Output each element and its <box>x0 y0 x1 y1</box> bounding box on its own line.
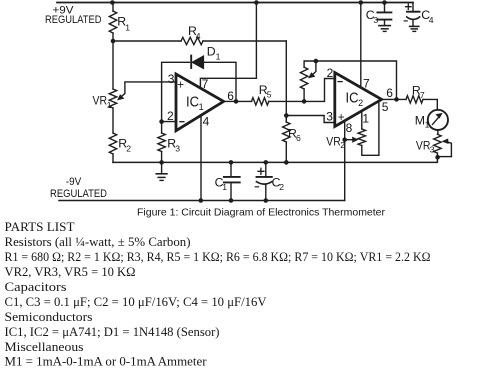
svg-text:IC: IC <box>346 90 359 107</box>
svg-text:3: 3 <box>430 145 435 155</box>
resistor R1 <box>112 3 114 12</box>
potentiometer VR2 <box>358 129 365 146</box>
svg-text:D: D <box>207 45 216 59</box>
wire D1 branch riser from pin2 node <box>162 62 190 121</box>
svg-text:VR2, VR3, VR5 = 10 KΩ: VR2, VR3, VR5 = 10 KΩ <box>5 265 136 279</box>
wire R4 branch riser down to IC2 pin3 node and R6 <box>285 41 287 122</box>
wire IC2 pin8 to -9V <box>344 121 346 201</box>
svg-text:3: 3 <box>175 143 180 153</box>
op-amp IC1 <box>176 74 224 131</box>
capacitor C3 <box>384 3 386 13</box>
wire R5 to IC2 pin2 <box>269 79 335 102</box>
wire IC1 pin4 to -9V <box>200 115 202 201</box>
svg-text:+: + <box>177 80 184 92</box>
svg-text:REGULATED: REGULATED <box>45 14 102 26</box>
wire IC1 pin7 to +9V <box>200 3 256 90</box>
capacitor C1 <box>230 162 232 176</box>
svg-text:1: 1 <box>362 111 369 125</box>
svg-text:4: 4 <box>196 31 201 41</box>
svg-text:6: 6 <box>296 133 301 143</box>
meter M1 <box>428 110 448 130</box>
svg-text:6: 6 <box>386 86 393 100</box>
svg-text:M1 = 1mA-0-1mA or 0-1mA Ammete: M1 = 1mA-0-1mA or 0-1mA Ammeter <box>5 355 207 369</box>
potentiometer VR3 <box>437 130 439 134</box>
svg-text:-9V: -9V <box>66 176 82 188</box>
svg-text:1: 1 <box>125 23 130 33</box>
svg-text:2: 2 <box>167 109 174 123</box>
wire IC2 pin7 to +9V <box>360 3 362 89</box>
resistor R7 <box>406 96 423 103</box>
ground symbol under C4 <box>410 25 419 27</box>
wire IC2 pin5 wrap <box>362 101 379 156</box>
resistor R2 <box>112 108 114 133</box>
svg-text:VR: VR <box>326 134 341 148</box>
svg-text:6: 6 <box>227 89 234 103</box>
resistor R4 <box>181 37 203 44</box>
svg-text:3: 3 <box>373 15 378 25</box>
wire IC2 pin3 from R4 branch <box>286 116 335 123</box>
wire ground rail <box>113 157 437 163</box>
svg-text:1: 1 <box>199 102 204 112</box>
wire IC2 feedback from output <box>316 61 397 99</box>
wire IC2 output <box>382 98 406 100</box>
potentiometer VR5 (feedback, unlabeled) <box>303 89 305 101</box>
svg-text:1: 1 <box>107 100 112 110</box>
svg-text:5: 5 <box>382 100 389 114</box>
wire R1 bottom node to R4 <box>113 40 181 42</box>
svg-text:C1, C3 = 0.1 μF; C2 = 10 μF/16: C1, C3 = 0.1 μF; C2 = 10 μF/16V; C4 = 10… <box>5 295 267 309</box>
svg-text:1: 1 <box>425 120 430 130</box>
svg-text:Figure 1: Circuit Diagram of E: Figure 1: Circuit Diagram of Electronics… <box>137 208 386 219</box>
svg-text:2: 2 <box>327 66 334 80</box>
potentiometer VR1 <box>112 41 114 89</box>
svg-text:2: 2 <box>340 140 345 150</box>
svg-text:7: 7 <box>363 77 370 91</box>
svg-text:7: 7 <box>202 77 209 91</box>
resistor R5 <box>252 98 269 105</box>
wire -9V rail <box>59 200 345 202</box>
svg-text:M: M <box>415 113 425 127</box>
capacitor C4 <box>412 3 414 12</box>
svg-text:2: 2 <box>279 182 284 192</box>
wire +9V rail <box>57 2 413 4</box>
svg-text:3: 3 <box>168 72 175 86</box>
svg-text:4: 4 <box>203 115 210 129</box>
wire VR1 wiper to IC1 pin3 <box>121 82 176 97</box>
svg-text:VR: VR <box>416 138 431 152</box>
svg-text:Resistors (all ¼-watt, ± 5% Ca: Resistors (all ¼-watt, ± 5% Carbon) <box>5 235 191 249</box>
svg-text:PARTS LIST: PARTS LIST <box>5 220 76 234</box>
diode D1 <box>190 56 192 68</box>
wire IC1 output to R5 <box>224 100 252 102</box>
svg-text:R1 = 680 Ω; R2 = 1 KΩ; R3, R4,: R1 = 680 Ω; R2 = 1 KΩ; R3, R4, R5 = 1 KΩ… <box>5 250 431 264</box>
svg-text:4: 4 <box>429 15 434 25</box>
svg-text:Semiconductors: Semiconductors <box>5 310 93 324</box>
ground symbol under R3 <box>161 162 163 173</box>
svg-text:VR: VR <box>93 94 108 108</box>
svg-text:Miscellaneous: Miscellaneous <box>5 340 84 354</box>
svg-text:1: 1 <box>216 51 221 61</box>
svg-text:5: 5 <box>267 90 272 100</box>
resistor R3 <box>161 122 163 133</box>
wire IC2 pin1 <box>361 111 363 130</box>
svg-text:Capacitors: Capacitors <box>5 280 67 294</box>
op-amp IC2 <box>335 73 382 127</box>
svg-text:7: 7 <box>420 90 425 100</box>
svg-text:8: 8 <box>346 121 353 135</box>
svg-text:2: 2 <box>126 143 131 153</box>
svg-text:3: 3 <box>326 110 333 124</box>
svg-text:IC1, IC2 = μA741; D1 = 1N4148: IC1, IC2 = μA741; D1 = 1N4148 (Sensor) <box>5 325 220 339</box>
svg-text:IC: IC <box>186 94 199 111</box>
capacitor C2 <box>265 162 267 176</box>
wire IC1 pin2 node <box>162 121 176 123</box>
svg-text:2: 2 <box>358 98 363 108</box>
resistor R6 <box>285 116 287 123</box>
svg-text:1: 1 <box>222 182 227 192</box>
ground symbol under C3 <box>379 25 390 27</box>
svg-text:+: + <box>338 112 345 124</box>
svg-text:REGULATED: REGULATED <box>50 188 107 200</box>
